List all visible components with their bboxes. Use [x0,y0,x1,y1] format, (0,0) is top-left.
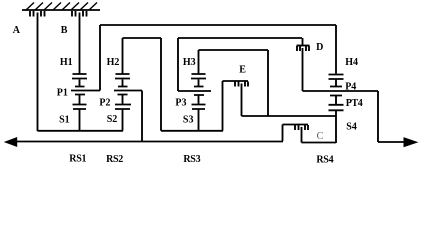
svg-text:H1: H1 [60,57,73,68]
svg-text:P4: P4 [345,81,356,92]
node P1 [75,95,85,105]
gear set RS3 lever [178,90,211,92]
clutch E plates [235,82,248,87]
node P3 [194,95,204,104]
clutch C plates [295,125,308,130]
brake B shaft [79,13,81,74]
svg-text:C: C [317,131,324,142]
wire E hub to S4 [242,115,337,117]
wire rail to RS3 lever [177,38,179,91]
svg-text:B: B [61,25,68,36]
node P2 [118,95,128,105]
input arrowhead [4,137,17,147]
wire H3 branch down [267,50,269,116]
wire rail to clutch D [302,38,304,46]
svg-text:H2: H2 [107,57,120,68]
svg-text:PT4: PT4 [346,98,363,109]
wire H3 to E branch [199,49,269,51]
sun S3 connection [192,105,206,131]
svg-text:A: A [13,25,21,36]
wire H2 to S3/E rail [123,38,162,131]
clutch H4 connection [329,75,344,87]
wire top rail to H4 [335,25,337,74]
svg-text:H4: H4 [345,57,358,68]
output shaft wire [378,91,405,142]
clutch E housing [223,80,249,82]
wire C hub to S4 [302,142,337,144]
ground housing line [22,9,100,11]
sun S4 connection [329,105,344,143]
brake A plates [30,11,45,17]
wire S3 rail [161,130,223,132]
gear set RS2 lever [114,90,142,92]
clutch C housing [283,124,309,126]
gear set RS1 lever [71,90,100,92]
clutch E hub shaft [241,84,243,117]
svg-text:S1: S1 [59,114,70,125]
svg-text:RS3: RS3 [183,154,200,165]
wire E housing to S3 rail [222,81,224,131]
svg-text:P2: P2 [99,98,110,109]
svg-text:S2: S2 [107,114,118,125]
svg-text:S4: S4 [346,122,357,133]
node PT4 [330,96,342,105]
wire D rail [178,37,302,39]
sun S2 connection [115,105,131,131]
wire C housing to input shaft [282,125,284,142]
wire sun shafts S1-S2 to brake A [38,130,124,132]
svg-text:H3: H3 [183,57,196,68]
clutch H2 connection [115,38,130,87]
gear set RS4 lever [303,90,379,92]
clutch D hub shaft [302,48,304,91]
clutch H3 connection [191,50,206,87]
svg-text:E: E [239,64,246,75]
top rail wire [100,24,336,26]
sun S1 connection [73,105,87,132]
svg-text:S3: S3 [183,114,194,125]
svg-text:P1: P1 [57,87,68,98]
input shaft wire [14,141,283,143]
clutch C hub shaft [301,127,303,143]
svg-text:RS2: RS2 [106,154,123,165]
svg-text:P3: P3 [175,98,186,109]
svg-text:RS4: RS4 [316,154,333,165]
svg-text:RS1: RS1 [69,154,86,165]
clutch H1 connection [72,74,87,87]
wire RS2 carrier to output shaft line [141,91,143,142]
clutch D housing [297,45,310,47]
clutch D plates [297,46,309,51]
output arrowhead [404,137,419,147]
brake A shaft [37,13,39,132]
brake B plates [72,11,87,17]
wire RS1 carrier to top rail [99,25,101,91]
svg-text:D: D [316,42,323,53]
ground hatching [26,3,97,11]
